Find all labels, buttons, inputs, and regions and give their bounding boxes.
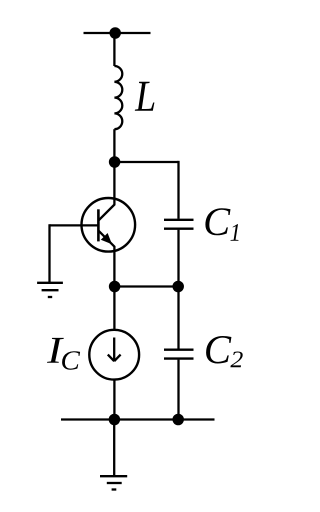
inductor L [114, 66, 122, 129]
junction dot: top rail node [109, 27, 121, 39]
wire: current source to bottom rail [113, 380, 115, 420]
junction dot: emitter node [109, 281, 121, 293]
label L [135, 82, 155, 111]
wire: base ground drop [48, 224, 50, 282]
label C2 glyph C [206, 336, 231, 364]
junction dot: bottom rail right [172, 414, 184, 426]
transistor Q1 base bar [97, 209, 100, 241]
wire: C2 bottom plate to bottom rail [177, 360, 179, 420]
current source arrow [108, 338, 121, 362]
label C2 subscript 2 [230, 351, 242, 367]
current source I_C body [89, 330, 139, 380]
junction dot: bottom rail left [109, 414, 121, 426]
wire: rail to inductor [113, 33, 115, 66]
capacitor C1 [164, 220, 194, 229]
wire: down to C1 top plate [177, 161, 179, 219]
wire: emitter node to current source [113, 287, 115, 331]
ground (base) [37, 283, 63, 297]
junction dot: node A (collector / L / C1) [109, 156, 121, 168]
transistor Q1 emitter [98, 231, 114, 287]
junction dot: right node at C1/C2 [172, 281, 184, 293]
label C1 subscript 1 [230, 224, 238, 241]
wire: node A to C1 branch (horizontal) [114, 161, 178, 163]
transistor Q1 emitter arrow [101, 233, 112, 244]
bottom rail [61, 418, 215, 420]
capacitor C2 [164, 350, 194, 359]
wire: bottom ground drop [113, 420, 115, 477]
ground (bottom) [100, 476, 127, 489]
wire: right node to C2 top plate [177, 287, 179, 349]
label IC glyph I [47, 338, 64, 363]
wire: base lead [50, 224, 99, 226]
wire: collector lead [98, 162, 114, 221]
label IC subscript C [62, 351, 80, 369]
wire: inductor to node A [113, 129, 115, 162]
transistor Q1 body [82, 198, 136, 252]
top supply rail [84, 32, 151, 34]
wire: C1 bottom plate to right node [177, 230, 179, 287]
label C1 glyph C [205, 208, 230, 235]
wire: emitter node to right node (horizontal) [114, 285, 178, 287]
